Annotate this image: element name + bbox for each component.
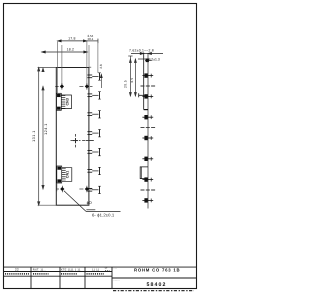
screw S4 [87,130,100,137]
svg-text:...... ..: ...... .. [114,279,121,282]
svg-text:.....: ..... [114,267,118,270]
svg-text:7.62±0.1––2.8: 7.62±0.1––2.8 [129,48,154,52]
connector CN1 front view [57,166,72,183]
svg-text:22: 22 [15,268,19,272]
side screw T7 [142,198,153,202]
leader line from hole H3 [64,191,86,212]
svg-text:18.2: 18.2 [67,47,75,51]
side screw T5 [142,157,153,161]
svg-text:CN3: CN3 [65,98,69,105]
dimension line A overall height [38,68,40,206]
small top screw T0 [145,59,152,63]
dimension line B hole span [42,68,44,189]
screw S2 [87,92,100,99]
center mark [71,134,86,147]
svg-text:±0.1: ±0.1 [87,37,93,41]
footer dashes below border [113,290,194,292]
plate bottom edge extension [38,204,57,206]
side dim line 1 [131,53,163,55]
screw S5 [87,148,100,155]
svg-text:11 11: 11 11 [92,269,100,272]
screws on plate right edge [87,73,100,194]
side connector CN1 profile [140,167,148,179]
hole H2 top-right [85,83,92,89]
side screw T4 [142,136,153,140]
side wide ticks [141,86,156,190]
plate outline front view [56,68,89,206]
svg-text:CN1: CN1 [66,171,70,178]
wide tick on plate right edge [86,140,94,142]
hole H1 top-left [55,83,83,89]
svg-text:131.1: 131.1 [32,130,36,142]
side screw T1 [142,73,153,77]
title row2 dotted [5,271,110,274]
svg-text:6- ϕ1.2±0.1: 6- ϕ1.2±0.1 [92,213,115,218]
side screw T2 [142,94,153,98]
svg-text:20.5: 20.5 [123,80,127,88]
side connector CN3 profile [139,93,148,109]
svg-text:ROHM CO 763 1B: ROHM CO 763 1B [134,268,180,273]
plate top edge extension [38,67,57,69]
side view extension line black [143,53,145,96]
top dimension line 1 [58,39,98,43]
extension line below CN1 [56,183,58,191]
side screw T3 [142,115,153,119]
side screws [142,59,153,203]
svg-text:2.8: 2.8 [99,64,103,69]
svg-text:ϕD: ϕD [87,200,92,205]
svg-text:58402: 58402 [147,282,167,288]
top dimension line 2 [42,51,88,53]
svg-text:8.5: 8.5 [130,77,134,82]
leader short line [86,209,95,211]
svg-text:17.8: 17.8 [68,36,76,40]
screw S3 [87,111,100,118]
side dim line 2 [138,58,151,60]
border frame [4,4,197,289]
hole H3 bottom-left [56,186,64,192]
connector CN3 front view [56,93,71,110]
side view main line [147,54,149,209]
side screw T6 [142,177,153,181]
screw S7 [87,186,100,193]
svg-text:RXT. 11 ..: RXT. 11 .. [33,269,47,272]
hole H4 bottom-right [79,186,92,192]
svg-text:XTE 1111 1 11: XTE 1111 1 11 [61,269,81,272]
screw S1 [87,73,100,80]
svg-text:124.1: 124.1 [44,123,48,135]
svg-text:2±1.3: 2±1.3 [151,57,160,61]
leader underline [86,210,121,212]
screw S6 [87,167,100,174]
title block grid [4,267,197,288]
side vertical dim line 2 [134,59,136,96]
side vertical dim line 1 [128,56,132,96]
extension lines above plate [58,39,98,94]
small arrow dim at screw washer [100,74,102,88]
